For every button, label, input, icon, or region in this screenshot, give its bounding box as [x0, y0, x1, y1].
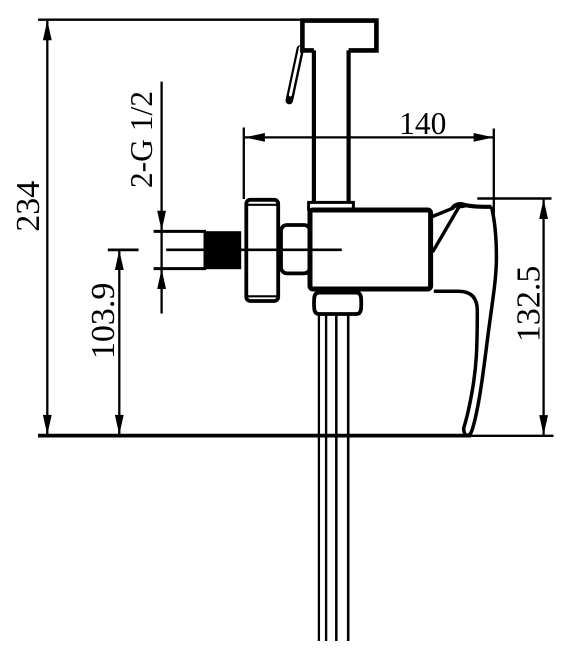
hose connection nut below body	[314, 293, 361, 314]
svg-text:132.5: 132.5	[510, 266, 547, 343]
supply pipe top edge	[154, 230, 206, 233]
dimension 2-G 1/2 arrow up	[157, 269, 166, 289]
escutcheon inner top line	[247, 204, 278, 206]
dimension 234 line	[46, 21, 48, 434]
dimension 140 right extension line	[493, 129, 495, 221]
pipe centerline	[166, 249, 342, 252]
handle: diagonal from body corner to knob	[430, 208, 453, 217]
dimension 234 arrow down	[43, 415, 52, 435]
escutcheon plate	[246, 200, 278, 301]
dimension 103.9 top tick	[108, 248, 139, 251]
threaded section (black)	[204, 231, 242, 269]
mount flange on body top	[309, 202, 354, 209]
top extension line	[38, 19, 303, 21]
dimension 132.5 arrow up	[539, 199, 548, 219]
dimension 140 left extension line	[243, 128, 245, 200]
sprayer tube right line	[347, 48, 351, 203]
hose line 4	[347, 315, 350, 642]
valve body	[310, 210, 431, 289]
svg-text:2-G 1/2: 2-G 1/2	[124, 91, 159, 188]
hose line 2	[325, 315, 327, 642]
dimension 2-G 1/2 upper line	[160, 82, 162, 314]
baseline thin extension right	[471, 435, 554, 437]
hex nut	[281, 225, 310, 273]
dimension 2-G 1/2 arrow down	[157, 211, 166, 231]
dimension 132.5 line	[542, 199, 544, 435]
hose line 1	[318, 315, 320, 642]
handle: steep front diagonal	[433, 207, 460, 253]
svg-text:234: 234	[10, 181, 47, 232]
sprayer head (T shape)	[302, 21, 376, 51]
dimension 103.9 arrow up	[115, 250, 124, 270]
dimension 132.5 arrow down	[539, 415, 548, 435]
escutcheon inner bottom line	[247, 295, 278, 297]
dimension 140 left arrow	[245, 133, 265, 142]
handle top bump	[453, 203, 467, 209]
lever handle of sprayer	[289, 48, 300, 101]
svg-text:140: 140	[399, 106, 446, 141]
handle: top edge with bump	[452, 204, 492, 209]
dimension 234 arrow up	[43, 20, 52, 40]
dimension 103.9 arrow down	[115, 415, 124, 435]
dimension 140 line	[245, 136, 494, 138]
handle: outer edge, bottom turn and inner edge	[434, 207, 497, 436]
baseline wall line	[38, 434, 471, 438]
svg-text:103.9: 103.9	[85, 283, 122, 360]
supply pipe bottom edge	[154, 267, 206, 270]
sprayer tube left line	[312, 48, 316, 203]
dimension 103.9 line	[118, 250, 120, 434]
dimension 140 right arrow	[474, 133, 494, 142]
hose line 3	[335, 315, 338, 642]
dimension 132.5 top tick	[477, 197, 551, 200]
